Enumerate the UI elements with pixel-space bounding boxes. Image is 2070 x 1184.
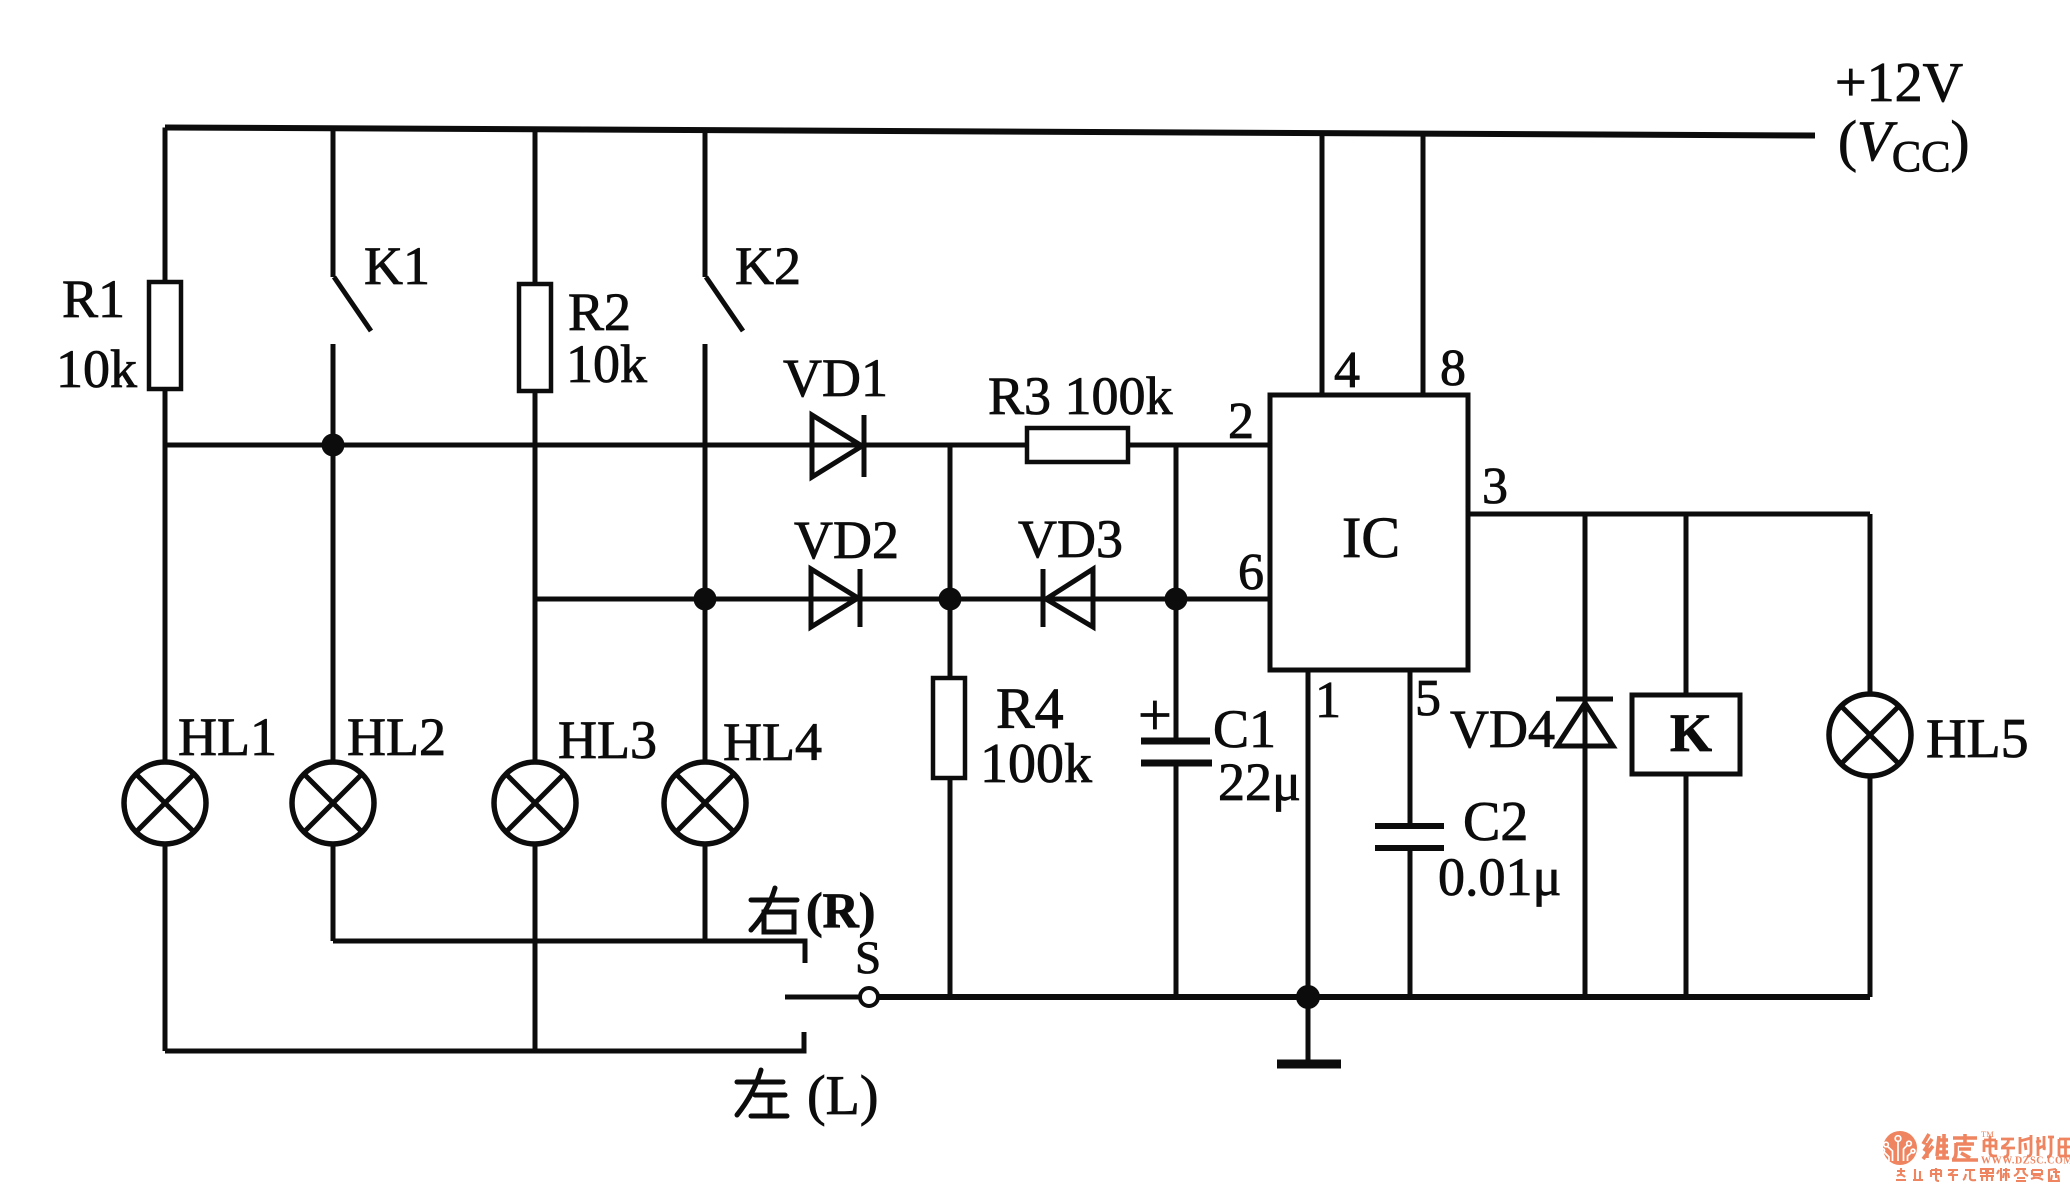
wire K1/HL2 lower branch: [331, 344, 336, 941]
svg-text:C1: C1: [1213, 699, 1276, 759]
svg-text:HL4: HL4: [723, 712, 822, 772]
junction node on row1 at K1: [322, 434, 345, 457]
svg-text:TM: TM: [1981, 1129, 1994, 1139]
svg-text:6: 6: [1238, 544, 1264, 601]
label left (L) chinese zuo: [737, 1070, 787, 1116]
diode VD1: [812, 415, 864, 477]
svg-text:S: S: [855, 932, 881, 984]
wire switch S arm: [785, 995, 860, 1000]
svg-text:WWW.DZSC.COM: WWW.DZSC.COM: [1981, 1156, 2070, 1167]
svg-text:10k: 10k: [56, 339, 137, 399]
wire relay K lower: [1684, 774, 1689, 997]
wire IC pin3 output: [1468, 512, 1870, 517]
wire HL5 branch: [1868, 514, 1873, 997]
svg-text:100k: 100k: [980, 733, 1092, 795]
svg-text:(L): (L): [807, 1065, 879, 1127]
lamp HL1: [124, 762, 206, 844]
junction node on row2 at K2: [694, 588, 717, 611]
svg-text:10k: 10k: [566, 334, 647, 394]
capacitor C1 plates: [1141, 741, 1212, 763]
svg-text:22μ: 22μ: [1218, 752, 1301, 812]
svg-text:VD4: VD4: [1450, 699, 1555, 759]
svg-text:+: +: [1138, 682, 1172, 748]
capacitor C2 plates: [1375, 826, 1444, 848]
wire vertical node-row to VD row at x950: [948, 445, 953, 599]
wire R2/HL3 vertical branch: [533, 129, 538, 1052]
wire VD4 branch: [1583, 514, 1588, 997]
svg-text:(R): (R): [806, 882, 875, 938]
wire right-turn contact row (R): [333, 941, 805, 963]
svg-text:VD1: VD1: [783, 348, 888, 408]
IC box U1: [1270, 395, 1468, 670]
relay K box: [1632, 695, 1740, 774]
svg-text:HL3: HL3: [558, 710, 657, 770]
wire K2/HL4 upper branch: [703, 129, 708, 277]
lamp HL5: [1829, 694, 1911, 776]
wire left-turn contact row (L): [165, 1032, 804, 1051]
resistor R4: [933, 678, 965, 778]
svg-text:R2: R2: [568, 282, 631, 342]
svg-text:1: 1: [1315, 672, 1341, 729]
ground symbol: [1277, 997, 1341, 1064]
svg-text:HL1: HL1: [178, 707, 277, 767]
junction node on row2 at x950: [939, 588, 962, 611]
svg-text:K2: K2: [735, 236, 801, 296]
watermark slogan: [1896, 1168, 2060, 1181]
svg-text:0.01μ: 0.01μ: [1438, 847, 1561, 907]
svg-text:8: 8: [1440, 340, 1466, 397]
svg-text:R3 100k: R3 100k: [988, 366, 1173, 426]
wire C2 lower: [1408, 848, 1413, 997]
junction node ground: [1296, 985, 1320, 1009]
lamp HL3: [494, 762, 576, 844]
wire IC pin4 supply: [1320, 131, 1325, 397]
resistor R3: [1027, 428, 1128, 462]
wire R1/HL1 left vertical branch: [163, 128, 168, 1052]
svg-text:3: 3: [1482, 458, 1508, 515]
svg-text:4: 4: [1334, 342, 1360, 399]
wire +12V top power rail: [165, 128, 1815, 136]
diode VD3: [1043, 569, 1093, 627]
switch K2 lever: [706, 277, 743, 331]
wire ground bus: [878, 994, 1870, 1000]
diode VD4: [1556, 699, 1613, 746]
switch K1 lever: [334, 277, 371, 331]
svg-text:VD3: VD3: [1018, 509, 1123, 569]
wire relay K upper: [1684, 514, 1689, 695]
wire K2/HL4 lower branch: [703, 344, 708, 941]
label right (R) chinese you: [751, 888, 797, 932]
watermark icon circle: [1883, 1131, 1917, 1165]
wire C1 branch upper: [1174, 599, 1179, 739]
svg-text:R4: R4: [996, 676, 1064, 741]
resistor R2: [519, 284, 551, 391]
diode VD2: [811, 569, 860, 627]
wire IC pin1 to ground bus: [1306, 670, 1311, 997]
resistor R1: [149, 282, 181, 389]
svg-text:+12V: +12V: [1835, 52, 1963, 114]
watermark text dianzishichangwang: [1984, 1135, 2070, 1157]
junction node on row2 at x1176: [1165, 588, 1188, 611]
wire IC pin5 / C2 upper: [1408, 670, 1413, 826]
wire K1/HL2 upper branch: [331, 128, 336, 277]
svg-text:IC: IC: [1342, 505, 1400, 570]
svg-text:2: 2: [1228, 393, 1254, 450]
svg-text:5: 5: [1415, 670, 1441, 727]
svg-text:K: K: [1670, 703, 1712, 763]
watermark text weiku: [1923, 1134, 1978, 1160]
wire R4 branch: [948, 599, 953, 997]
wire VD2/VD3 row to IC pin6: [535, 597, 1270, 602]
svg-text:R1: R1: [62, 269, 125, 329]
svg-text:HL2: HL2: [347, 707, 446, 767]
svg-text:HL5: HL5: [1926, 708, 2029, 770]
svg-text:K1: K1: [364, 236, 430, 296]
watermark logo group: [1881, 1129, 2070, 1181]
svg-text:C2: C2: [1463, 791, 1528, 853]
wire node row to IC pin2: [165, 443, 1270, 448]
lamp HL4: [664, 762, 746, 844]
switch S pole circle: [860, 988, 878, 1006]
wire vertical node-row to VD row at x1176: [1174, 445, 1179, 599]
wire C1 branch lower: [1174, 764, 1179, 997]
lamp HL2: [292, 762, 374, 844]
svg-text:VD2: VD2: [794, 510, 899, 570]
wire IC pin8 supply: [1421, 131, 1426, 397]
